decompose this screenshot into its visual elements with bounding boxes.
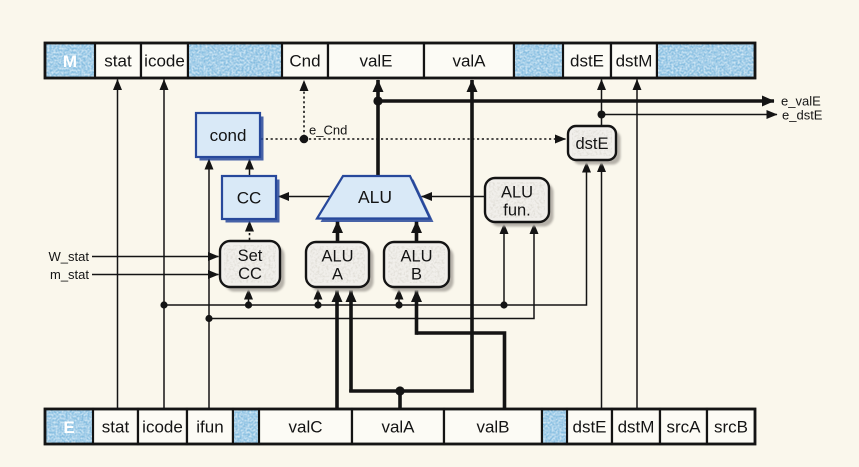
svg-text:CC: CC — [238, 265, 262, 283]
svg-text:e_dstE: e_dstE — [782, 108, 823, 123]
svg-text:cond: cond — [210, 126, 247, 145]
svg-text:srcA: srcA — [667, 418, 702, 437]
svg-text:dstE: dstE — [572, 418, 606, 437]
svg-text:stat: stat — [102, 418, 130, 437]
svg-text:E: E — [63, 418, 74, 437]
svg-text:B: B — [411, 266, 422, 284]
svg-text:valE: valE — [359, 52, 392, 71]
svg-text:dstE: dstE — [575, 135, 608, 153]
svg-text:dstE: dstE — [570, 52, 604, 71]
svg-text:ALU: ALU — [501, 184, 533, 202]
svg-text:valC: valC — [288, 418, 322, 437]
svg-text:W_stat: W_stat — [49, 249, 90, 264]
svg-text:A: A — [332, 266, 343, 284]
svg-text:ALU: ALU — [358, 187, 392, 207]
svg-text:dstM: dstM — [616, 52, 653, 71]
svg-text:icode: icode — [144, 52, 185, 71]
svg-text:CC: CC — [237, 189, 262, 208]
svg-text:e_Cnd: e_Cnd — [309, 123, 347, 138]
svg-text:ALU: ALU — [321, 248, 353, 266]
svg-text:valA: valA — [381, 418, 415, 437]
svg-text:e_valE: e_valE — [781, 94, 821, 109]
svg-text:Cnd: Cnd — [289, 52, 320, 71]
svg-text:srcB: srcB — [714, 418, 748, 437]
svg-text:valA: valA — [452, 52, 486, 71]
svg-text:valB: valB — [476, 418, 509, 437]
svg-text:icode: icode — [142, 418, 183, 437]
svg-text:ALU: ALU — [400, 248, 432, 266]
svg-text:stat: stat — [104, 52, 132, 71]
svg-text:ifun: ifun — [196, 418, 223, 437]
svg-text:dstM: dstM — [618, 418, 655, 437]
svg-text:fun.: fun. — [503, 202, 531, 220]
svg-text:Set: Set — [238, 247, 263, 265]
svg-text:m_stat: m_stat — [50, 267, 89, 282]
svg-text:M: M — [63, 52, 77, 71]
